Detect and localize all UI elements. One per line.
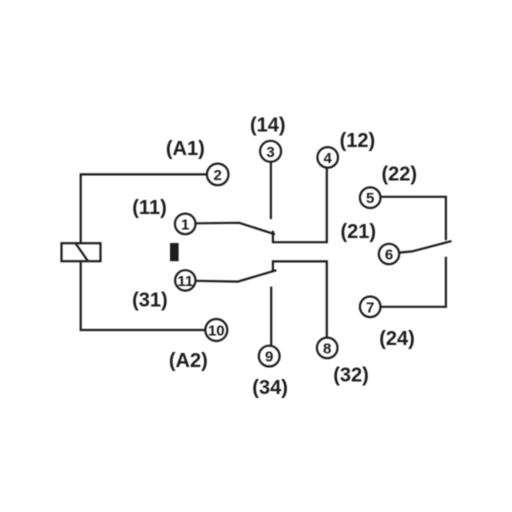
svg-text:8: 8 — [323, 340, 331, 357]
svg-text:7: 7 — [366, 299, 374, 316]
svg-text:2: 2 — [214, 167, 222, 184]
svg-text:(12): (12) — [340, 130, 376, 152]
svg-text:(32): (32) — [333, 365, 369, 387]
wire: pin9 NO terminal vertical — [270, 287, 272, 346]
terminal pin 5 — [360, 187, 381, 208]
terminal pin 1 — [175, 214, 196, 235]
svg-text:4: 4 — [324, 150, 333, 167]
wire A2: coil bottom to pin10 — [81, 261, 206, 330]
svg-text:6: 6 — [385, 247, 393, 264]
wire A1: pin2 to coil top — [81, 174, 208, 243]
wire: pin3 NO terminal vertical — [270, 162, 272, 219]
svg-text:10: 10 — [208, 323, 225, 340]
terminal pin 4 — [317, 147, 338, 168]
terminal pin 8 — [317, 338, 338, 359]
svg-text:5: 5 — [366, 190, 374, 207]
coil diagonal — [76, 243, 89, 261]
wire: pole3 NC bracket to pin8 — [273, 261, 327, 337]
wire: pin6 movable arm (pole 2 common) — [399, 241, 451, 253]
wire: pin1 movable arm (pole 1 common) — [196, 223, 276, 235]
wire: pole1 NC bracket to pin4 — [273, 168, 327, 242]
terminal pin 6 — [379, 244, 399, 264]
terminal pin 11 — [175, 270, 195, 290]
svg-text:(34): (34) — [252, 377, 288, 399]
wire: pin5 NC to right rail — [381, 197, 446, 240]
terminal pin 10 — [205, 319, 227, 341]
terminal pin 3 — [260, 141, 281, 162]
terminal pin 7 — [360, 297, 381, 318]
svg-text:1: 1 — [181, 216, 189, 233]
svg-text:(A2): (A2) — [169, 350, 208, 372]
svg-text:(14): (14) — [250, 114, 286, 136]
svg-text:9: 9 — [265, 349, 273, 366]
svg-text:(31): (31) — [132, 290, 168, 312]
mechanical link bar — [170, 243, 179, 261]
svg-text:(A1): (A1) — [166, 138, 205, 160]
terminal pin 2 — [207, 164, 229, 186]
svg-text:11: 11 — [177, 273, 193, 290]
wire: pin7 NO to right rail — [381, 257, 446, 307]
svg-text:(22): (22) — [382, 164, 418, 186]
svg-text:(21): (21) — [341, 221, 377, 243]
terminal pin 9 — [259, 346, 280, 367]
svg-text:(11): (11) — [132, 197, 166, 219]
svg-text:3: 3 — [266, 144, 274, 161]
coil K1 — [62, 243, 101, 261]
wire: pin11 movable arm (pole 3 common) — [196, 270, 277, 281]
svg-text:(24): (24) — [379, 328, 415, 350]
